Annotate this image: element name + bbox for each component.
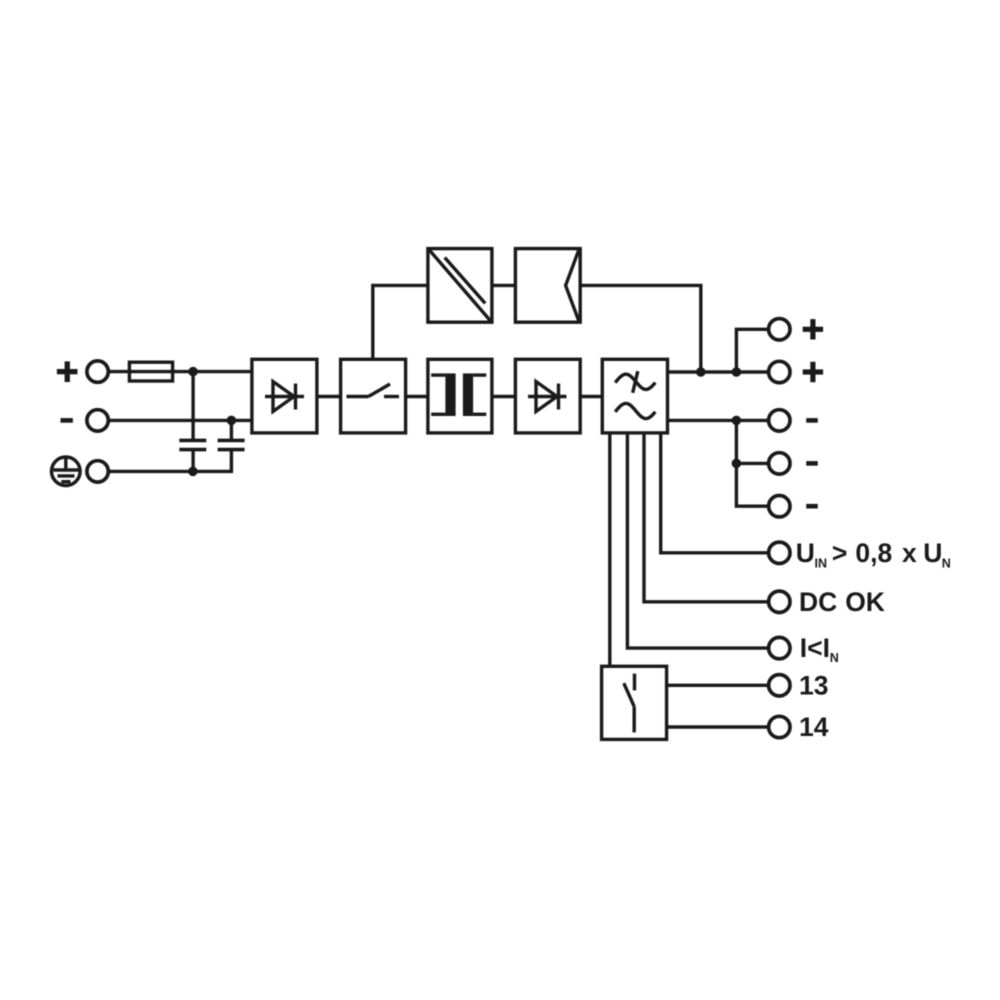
node junction L+ / C1 bbox=[188, 367, 198, 377]
wire signal DC OK from filter bbox=[644, 433, 767, 602]
wire L- from terminal to rectifier bbox=[108, 419, 252, 422]
node output terminal plus 2 bbox=[769, 361, 790, 382]
svg-text:DC: DC bbox=[799, 587, 837, 617]
label + (input plus) bbox=[57, 361, 78, 382]
label I less In bbox=[800, 633, 839, 665]
relay contact K1 symbol bbox=[624, 674, 635, 733]
wire L+ from terminal to rectifier bbox=[108, 370, 252, 373]
node signal terminal I less In bbox=[769, 637, 790, 658]
wire rectifier to switch bbox=[317, 395, 341, 398]
label - output 1 bbox=[806, 418, 818, 423]
node junction PE / C1 bbox=[188, 467, 198, 477]
wire converter to booster block bbox=[492, 284, 516, 287]
wire filter to relay block bbox=[608, 433, 611, 666]
wire minus branch down bbox=[736, 420, 767, 506]
label 13 bbox=[799, 670, 828, 700]
block booster (chevron symbol) bbox=[515, 249, 580, 323]
node junction L- / C2 bbox=[227, 416, 237, 426]
diode D2 (output rectifier symbol) bbox=[528, 382, 567, 412]
wire switch top to converter block bbox=[373, 285, 428, 359]
node L+ input terminal bbox=[87, 361, 108, 382]
wire signal Uin from filter bbox=[661, 433, 768, 553]
block input rectifier bbox=[252, 359, 317, 433]
label - output 2 bbox=[806, 461, 818, 466]
svg-text:I<I: I<I bbox=[800, 633, 830, 663]
wire booster to plus rail bbox=[580, 285, 701, 372]
svg-text:U: U bbox=[796, 538, 815, 568]
node junction plus rail / converter bbox=[696, 367, 706, 377]
filter symbol suppressed ripple sine bbox=[615, 371, 655, 393]
fuse F1 bbox=[129, 362, 172, 381]
node output terminal minus 2 bbox=[769, 453, 790, 474]
wire minus branch to middle terminal bbox=[736, 462, 767, 465]
node L- input terminal bbox=[87, 410, 108, 431]
ground PE symbol bbox=[52, 457, 81, 486]
svg-text:13: 13 bbox=[799, 670, 828, 700]
svg-text:14: 14 bbox=[799, 712, 829, 742]
wire relay to terminal 13 bbox=[667, 684, 768, 687]
label - (input minus) bbox=[61, 418, 73, 423]
block DC converter (diagonal symbol) bbox=[428, 249, 492, 323]
label + output 2 bbox=[803, 362, 823, 382]
node output terminal minus 3 bbox=[769, 496, 790, 517]
node output terminal minus 1 bbox=[769, 410, 790, 431]
wire transformer to output diode bbox=[492, 395, 516, 398]
node PE input terminal bbox=[87, 461, 108, 482]
wire plus rail filter to terminal bbox=[668, 370, 768, 373]
block transformer bbox=[428, 359, 492, 433]
node relay terminal 14 bbox=[769, 716, 790, 737]
wire signal I less In from filter bbox=[627, 433, 767, 648]
node signal terminal Uin bbox=[769, 542, 790, 563]
wire minus rail filter to terminal bbox=[668, 419, 768, 422]
label + output 1 bbox=[803, 319, 823, 339]
wire PE from terminal to C2 bbox=[108, 450, 231, 472]
wire relay to terminal 14 bbox=[667, 725, 768, 728]
label DC OK bbox=[799, 587, 885, 617]
node junction minus branch middle bbox=[732, 459, 742, 469]
filter symbol sine bbox=[615, 403, 655, 418]
wire switch to transformer bbox=[406, 395, 428, 398]
switch S1 symbol bbox=[347, 384, 400, 397]
label Uin > 0,8 x Un bbox=[796, 538, 951, 570]
node junction minus rail branch bbox=[732, 416, 742, 426]
svg-text:N: N bbox=[942, 556, 951, 570]
svg-text:x: x bbox=[902, 538, 917, 568]
block output rectifier bbox=[515, 359, 580, 433]
svg-text:IN: IN bbox=[815, 556, 828, 570]
node signal terminal DC OK bbox=[769, 591, 790, 612]
svg-text:0,8: 0,8 bbox=[855, 538, 892, 568]
svg-text:U: U bbox=[923, 538, 942, 568]
capacitor C1 bbox=[179, 372, 206, 472]
capacitor C2 bbox=[218, 420, 245, 449]
label 14 bbox=[799, 712, 829, 742]
block switching stage bbox=[341, 359, 406, 433]
node junction plus rail branch bbox=[732, 367, 742, 377]
block relay bbox=[602, 666, 667, 739]
label - output 3 bbox=[806, 504, 818, 509]
wire plus branch up to first plus terminal bbox=[736, 329, 767, 372]
node output terminal plus 1 bbox=[769, 319, 790, 340]
block output filter bbox=[602, 359, 667, 433]
node relay terminal 13 bbox=[769, 675, 790, 696]
svg-text:>: > bbox=[832, 538, 847, 568]
wire output diode to filter bbox=[580, 395, 602, 398]
svg-text:N: N bbox=[830, 651, 839, 665]
svg-text:OK: OK bbox=[845, 587, 885, 617]
diode D1 (input rectifier symbol) bbox=[265, 382, 304, 412]
transformer T1 symbol bbox=[445, 373, 473, 416]
